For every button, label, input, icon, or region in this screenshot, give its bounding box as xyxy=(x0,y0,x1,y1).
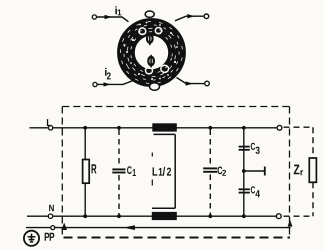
winding loop top outer xyxy=(145,11,154,17)
wire upper-right lead xyxy=(175,16,204,21)
terminal L right xyxy=(277,125,282,130)
winding loop inner top-right xyxy=(155,28,161,34)
node R top xyxy=(83,126,87,130)
capacitor C2 xyxy=(203,168,217,171)
label Zr xyxy=(294,165,303,176)
node R bottom xyxy=(83,214,87,218)
label C1 xyxy=(127,166,136,176)
wire lower-right lead xyxy=(177,78,205,84)
arrow on lower-right lead xyxy=(186,81,193,85)
terminal PE xyxy=(51,226,55,230)
node C3-C4 midpoint xyxy=(242,169,246,173)
wire upper-left lead xyxy=(97,17,129,22)
core texture speckles xyxy=(123,22,178,80)
label C2 xyxy=(218,167,226,176)
resistor R xyxy=(83,160,90,184)
wire N rail xyxy=(27,215,281,217)
arrow PE-to-case right xyxy=(288,220,293,227)
label C3 xyxy=(251,143,260,154)
choke core line top xyxy=(154,133,176,135)
node C3 top xyxy=(242,126,246,130)
label i2 xyxy=(105,68,111,80)
label L xyxy=(47,119,52,126)
capacitor C3/C4 branch wire xyxy=(243,128,245,216)
capacitor C1 branch dashed wires xyxy=(118,130,120,215)
wire Zr dashed bottom xyxy=(284,215,314,217)
arrow on upper-right lead xyxy=(187,14,194,18)
label i1 xyxy=(115,6,121,15)
flux phi upper xyxy=(147,32,153,45)
choke L1/2 winding top xyxy=(152,123,177,131)
node C2 bottom xyxy=(208,214,212,218)
node C1 top xyxy=(117,126,121,130)
wire L rail xyxy=(30,127,282,129)
terminal lower-left xyxy=(93,82,97,86)
midpoint stub end tick xyxy=(264,167,266,176)
choke L1/2 winding bottom xyxy=(152,212,177,220)
terminal lower-right xyxy=(205,81,210,86)
winding loop inner bottom-left xyxy=(146,67,153,74)
terminal upper-left xyxy=(92,15,96,19)
wire Zr dashed right lower xyxy=(312,182,314,216)
node C4 bottom xyxy=(242,214,246,218)
capacitor C2 branch dashed wires xyxy=(209,130,211,215)
terminal L xyxy=(48,126,52,130)
winding loop bottom outer xyxy=(150,83,160,91)
wire midpoint stub xyxy=(244,170,265,172)
capacitor C1 xyxy=(112,169,125,172)
arrow PE-to-case left xyxy=(61,223,67,230)
label N xyxy=(49,205,54,211)
wire Zr dashed right upper xyxy=(312,127,314,158)
toroid core T1 xyxy=(118,19,185,86)
core texture arcs xyxy=(108,9,195,96)
choke core line right xyxy=(174,134,176,208)
choke core dashed left xyxy=(151,153,153,207)
node C2 top xyxy=(208,126,212,130)
node C1 bottom xyxy=(117,214,121,218)
capacitor C4 xyxy=(239,189,250,192)
terminal N right xyxy=(276,214,281,219)
arrow on PE line (pointing left) xyxy=(124,225,136,230)
PP earth terminal xyxy=(24,231,39,246)
flux phi lower xyxy=(148,55,154,68)
arrow i1 direction xyxy=(105,15,112,19)
winding loop inner bottom-right xyxy=(161,65,169,72)
wire Zr dashed top xyxy=(284,126,314,128)
resistor R branch wire xyxy=(84,128,86,216)
label R xyxy=(92,164,97,173)
choke core line bottom xyxy=(152,207,175,209)
terminal N xyxy=(48,214,52,218)
label PP xyxy=(45,233,55,241)
wire lower-left lead xyxy=(97,80,134,84)
terminal upper-right xyxy=(204,14,209,19)
capacitor C3 xyxy=(239,147,250,150)
label C4 xyxy=(251,186,260,197)
wire PE line xyxy=(26,227,291,229)
label L1/2 xyxy=(146,157,171,176)
filter case dashed box xyxy=(62,107,290,238)
arrow i2 direction xyxy=(104,82,111,86)
load Zr xyxy=(309,158,316,182)
winding loop inner top-left xyxy=(139,28,146,35)
